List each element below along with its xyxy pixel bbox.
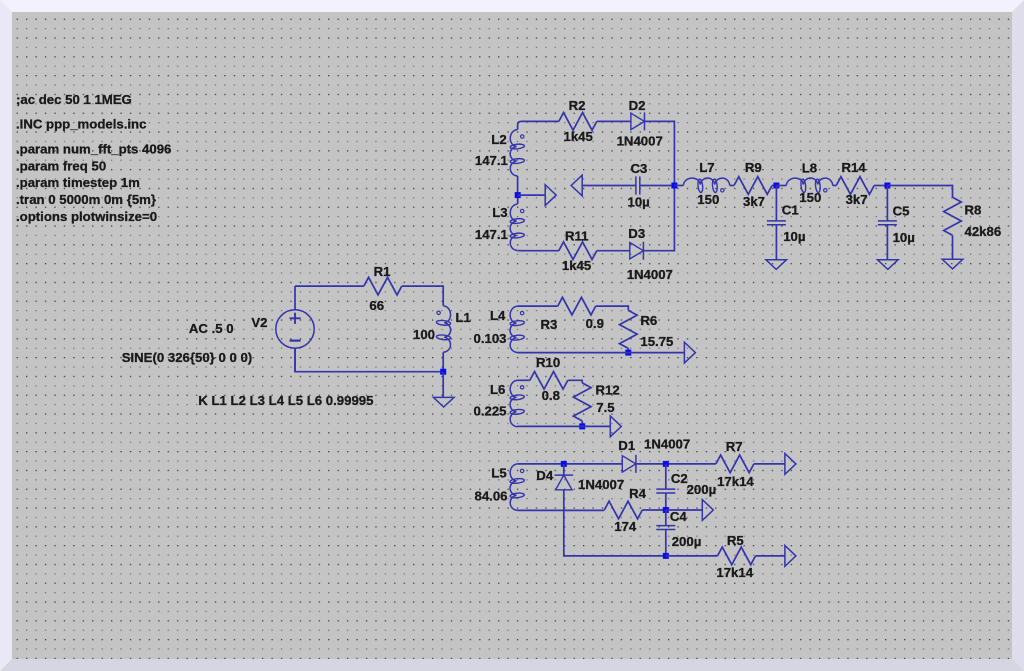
wire R11 to L3: [522, 250, 559, 252]
label 42k86: [965, 224, 1002, 239]
capacitor C2: [656, 489, 675, 493]
spice directive .tran 0 5000m 0m {5m}: [16, 192, 156, 207]
wire C2 top: [665, 464, 667, 489]
label R9: [745, 160, 762, 175]
label 150 L7: [697, 192, 719, 207]
label L2: [491, 132, 506, 147]
ground G3: [878, 260, 899, 270]
label D1: [618, 438, 635, 453]
wire D1 to R7: [636, 463, 716, 465]
svg-text:L1: L1: [456, 310, 471, 325]
svg-text:150: 150: [799, 190, 821, 205]
label 7.5: [596, 400, 614, 415]
diode D2: [631, 112, 645, 130]
node junction R12 out: [579, 423, 585, 429]
svg-text:R11: R11: [565, 229, 588, 244]
svg-text:66: 66: [369, 298, 384, 313]
label R8: [965, 202, 982, 217]
resistor R4: [604, 501, 642, 519]
label 1k45 R11: [562, 258, 591, 273]
label 17k14 R5: [716, 565, 753, 580]
wire D3 to R11: [597, 250, 630, 252]
svg-text:R5: R5: [727, 533, 744, 548]
svg-text:1N4007: 1N4007: [644, 437, 690, 452]
node junction C4 top: [663, 507, 669, 513]
label 10u C5: [893, 230, 915, 245]
svg-text:C2: C2: [671, 471, 688, 486]
ground G1: [433, 397, 454, 407]
wire L1 bottom: [442, 352, 444, 371]
svg-text:1N4007: 1N4007: [617, 134, 663, 149]
label R14: [842, 160, 867, 175]
svg-text:R1: R1: [374, 264, 391, 279]
label 1N4007 D2: [617, 134, 663, 149]
label R1: [374, 264, 391, 279]
svg-text:C3: C3: [631, 161, 648, 176]
label 147.1 L3: [475, 227, 508, 242]
svg-text:K L1 L2 L3 L4 L5 L6 0.99995: K L1 L2 L3 L4 L5 L6 0.99995: [198, 393, 373, 408]
svg-text:0.9: 0.9: [586, 316, 604, 331]
svg-text:V2: V2: [251, 315, 267, 330]
svg-text:R2: R2: [569, 98, 586, 113]
port arrow R6 out: [684, 342, 695, 363]
label 1N4007 D1: [644, 437, 690, 452]
wire node to R8: [887, 186, 952, 198]
node junction R6 out: [625, 350, 631, 356]
label D3: [628, 226, 645, 241]
svg-text:;ac dec 50 1 1MEG: ;ac dec 50 1 1MEG: [16, 92, 132, 107]
window frame top bevel: [0, 0, 1024, 12]
wire L5 mid rail: [518, 509, 605, 511]
wire R12 bottom: [581, 421, 583, 427]
svg-text:200µ: 200µ: [687, 482, 717, 497]
label L1: [456, 310, 471, 325]
svg-text:L6: L6: [490, 382, 505, 397]
diode D4: [555, 475, 574, 490]
wire L2 to R2: [522, 120, 559, 122]
svg-text:R3: R3: [541, 317, 558, 332]
svg-text:L4: L4: [490, 308, 506, 323]
wire L6 bottom rail: [518, 425, 611, 427]
svg-text:1N4007: 1N4007: [578, 477, 624, 492]
wire C5 bottom: [886, 225, 888, 260]
svg-text:10µ: 10µ: [783, 229, 805, 244]
svg-text:R8: R8: [965, 202, 982, 217]
node junction L2-L3: [515, 192, 521, 198]
wire R5 to port: [756, 555, 785, 557]
wire L8 to R14: [833, 185, 836, 187]
node junction D2-D3: [671, 183, 677, 189]
svg-text:1k45: 1k45: [562, 258, 591, 273]
wire C2 bottom: [665, 493, 667, 510]
inductor L3: [510, 195, 525, 251]
svg-text:0.103: 0.103: [474, 331, 507, 346]
window frame left bevel: [0, 0, 12, 671]
port arrow R5 out: [785, 546, 796, 567]
label 15.75: [640, 334, 673, 349]
svg-text:84.06: 84.06: [475, 489, 508, 504]
svg-text:R7: R7: [726, 439, 743, 454]
label 200u C4: [672, 534, 702, 549]
svg-text:15.75: 15.75: [640, 334, 673, 349]
inductor L4: [510, 306, 525, 353]
spice directive .param num_fft_pts 4096: [16, 142, 171, 157]
svg-text:R12: R12: [596, 383, 620, 398]
capacitor C5: [878, 221, 897, 225]
wire node to L8: [776, 185, 786, 187]
svg-text:0.8: 0.8: [542, 388, 560, 403]
svg-text:D3: D3: [628, 226, 645, 241]
svg-text:C4: C4: [670, 509, 688, 524]
inductor L6: [510, 380, 525, 427]
svg-text:150: 150: [697, 192, 719, 207]
label R11: [565, 229, 588, 244]
port arrow R7 out: [785, 454, 796, 475]
wire R7 to port: [754, 463, 785, 465]
wire C1 bottom: [775, 225, 777, 260]
label C4: [670, 509, 688, 524]
wire L4 bottom rail: [518, 352, 685, 354]
svg-text:147.1: 147.1: [475, 153, 508, 168]
spice directive .INC ppp_models.inc: [16, 117, 146, 132]
label L3: [492, 205, 507, 220]
capacitor C1: [767, 221, 786, 225]
inductor L7: [683, 178, 730, 193]
wire L5 top rail: [518, 463, 623, 465]
label AC .5 0: [189, 321, 234, 336]
label 1N4007 D4: [578, 477, 624, 492]
label 200u C2: [687, 482, 717, 497]
label L4: [490, 308, 506, 323]
label SINE(0 326{50} 0 0 0): [122, 350, 253, 365]
label C2: [671, 471, 688, 486]
diode D3: [630, 242, 644, 260]
wire R14 to node C5: [874, 185, 887, 187]
label 10u C1: [783, 229, 805, 244]
svg-text:1k45: 1k45: [564, 129, 593, 144]
svg-text:R14: R14: [842, 160, 867, 175]
svg-text:17k14: 17k14: [717, 474, 754, 489]
wire R2 to D2: [597, 120, 631, 122]
node junction C1: [773, 183, 779, 189]
wire D2 right loop: [643, 121, 674, 250]
wire R1 to L1: [402, 286, 443, 306]
port arrow C3 left: [571, 175, 582, 196]
label D4: [536, 468, 554, 483]
wire L6 to R10: [518, 379, 530, 381]
label R12: [596, 383, 620, 398]
label 66: [369, 298, 384, 313]
inductor L2: [510, 121, 525, 195]
svg-text:R10: R10: [536, 355, 560, 370]
label 0.225: [474, 404, 507, 419]
label L6: [490, 382, 505, 397]
svg-text:42k86: 42k86: [965, 224, 1002, 239]
label L7: [699, 160, 714, 175]
window frame right bevel: [1012, 0, 1024, 671]
node junction C5: [884, 183, 890, 189]
inductor L1: [436, 306, 451, 353]
svg-text:1N4007: 1N4007: [627, 267, 673, 282]
node junction C2 top: [663, 461, 669, 467]
node junction D4 top: [561, 461, 567, 467]
wire node to L7: [674, 185, 683, 187]
label 3k7 R14: [846, 192, 868, 207]
svg-text:.param timestep 1m: .param timestep 1m: [16, 175, 140, 190]
label R4: [629, 486, 647, 501]
spice directive .param freq 50: [16, 159, 106, 174]
label 147.1 L2: [475, 153, 508, 168]
svg-text:174: 174: [614, 519, 637, 534]
node junction bottom rail: [663, 553, 669, 559]
resistor R5: [718, 547, 756, 565]
wire R10 to R12: [568, 380, 582, 383]
spice directive K L1 L2 L3 L4 L5 L6 0.99995: [198, 393, 373, 408]
svg-text:R9: R9: [745, 160, 762, 175]
resistor R3: [558, 297, 596, 315]
inductor L5: [510, 464, 525, 511]
wire R8 bottom: [952, 235, 954, 259]
svg-text:7.5: 7.5: [596, 400, 614, 415]
window frame bottom bevel: [0, 659, 1024, 671]
label R10: [536, 355, 560, 370]
wire C1 top: [775, 186, 777, 221]
resistor R2: [559, 113, 597, 131]
wire L7 to R9: [730, 185, 734, 187]
port arrow secondary1: [545, 185, 556, 206]
wire V2 top rail: [295, 285, 364, 287]
wire R6 bottom: [627, 348, 629, 352]
wire ground stem V2: [442, 372, 444, 398]
label R5: [727, 533, 744, 548]
svg-text:C1: C1: [782, 203, 799, 218]
svg-text:L8: L8: [802, 160, 817, 175]
svg-text:.param freq 50: .param freq 50: [16, 159, 106, 174]
spice directive ;ac dec 50 1 1MEG: [16, 92, 132, 107]
ground G4: [942, 259, 963, 269]
wire D4 top: [563, 464, 565, 475]
svg-text:R4: R4: [629, 486, 647, 501]
svg-text:.param num_fft_pts 4096: .param num_fft_pts 4096: [16, 142, 171, 157]
node junction V2 bottom: [440, 369, 446, 375]
label C1: [782, 203, 799, 218]
capacitor C3: [636, 176, 640, 194]
svg-text:C5: C5: [893, 203, 910, 218]
wire C5 top: [886, 186, 888, 221]
wire C3 to node: [640, 185, 675, 187]
svg-text:L7: L7: [699, 160, 714, 175]
label R2: [569, 98, 586, 113]
svg-text:17k14: 17k14: [716, 565, 753, 580]
wire R9 to node C1: [772, 185, 776, 187]
spice directive .options plotwinsize=0: [16, 209, 157, 224]
wire V2 bottom rail: [295, 348, 443, 372]
port arrow R12 out: [610, 416, 621, 437]
svg-text:10µ: 10µ: [628, 195, 650, 210]
voltage source V2: [276, 286, 314, 372]
label 1k45 R2: [564, 129, 593, 144]
svg-text:L3: L3: [492, 205, 507, 220]
label 3k7 R9: [743, 194, 765, 209]
resistor R1: [364, 277, 402, 295]
resistor R10: [530, 372, 568, 390]
wire L4 to R3: [518, 305, 558, 307]
label 0.9: [586, 316, 604, 331]
svg-text:L2: L2: [491, 132, 506, 147]
label 0.103: [474, 331, 507, 346]
label D2: [629, 98, 646, 113]
inductor L8: [786, 178, 833, 193]
resistor R6: [620, 310, 638, 348]
wire port to C3: [582, 185, 636, 187]
label C5: [893, 203, 910, 218]
wire R3 to R6: [596, 306, 629, 310]
ground G2: [766, 260, 787, 270]
svg-text:D2: D2: [629, 98, 646, 113]
diode D1: [622, 455, 636, 473]
svg-text:100: 100: [413, 327, 435, 342]
label 150 L8: [799, 190, 821, 205]
svg-text:SINE(0 326{50} 0 0 0): SINE(0 326{50} 0 0 0): [122, 350, 253, 365]
resistor R8: [944, 197, 962, 235]
wire node to port R4: [666, 509, 702, 511]
label C3: [631, 161, 648, 176]
resistor R11: [559, 242, 597, 260]
svg-text:147.1: 147.1: [475, 227, 508, 242]
port arrow R4 out: [702, 500, 713, 521]
label V2: [251, 315, 267, 330]
spice directive .param timestep 1m: [16, 175, 140, 190]
svg-text:L5: L5: [491, 466, 506, 481]
svg-text:R6: R6: [640, 313, 657, 328]
label 174: [614, 519, 637, 534]
resistor R14: [836, 177, 874, 195]
wire C4 bottom: [665, 530, 667, 556]
label 1N4007 D3: [627, 267, 673, 282]
svg-text:200µ: 200µ: [672, 534, 702, 549]
svg-text:.INC ppp_models.inc: .INC ppp_models.inc: [16, 117, 146, 132]
svg-text:.options plotwinsize=0: .options plotwinsize=0: [16, 209, 157, 224]
svg-text:D1: D1: [618, 438, 635, 453]
svg-text:0.225: 0.225: [474, 404, 507, 419]
svg-text:AC .5 0: AC .5 0: [189, 321, 234, 336]
svg-text:10µ: 10µ: [893, 230, 915, 245]
resistor R7: [716, 455, 754, 473]
wire C4 top: [665, 510, 667, 526]
label R3: [541, 317, 558, 332]
wire R4 to node: [642, 509, 666, 511]
label 10u C3: [628, 195, 650, 210]
capacitor C4: [656, 526, 675, 530]
label L8: [802, 160, 817, 175]
wire D4 bottom: [564, 490, 666, 556]
label R7: [726, 439, 743, 454]
label 100: [413, 327, 435, 342]
label 0.8 R10: [542, 388, 560, 403]
label 17k14 R7: [717, 474, 754, 489]
wire junction to port: [518, 194, 546, 196]
svg-text:D4: D4: [536, 468, 554, 483]
wire bottom rail to R5: [666, 555, 717, 557]
resistor R9: [734, 177, 772, 195]
svg-text:3k7: 3k7: [743, 194, 765, 209]
resistor R12: [573, 383, 591, 421]
svg-text:.tran 0 5000m 0m {5m}: .tran 0 5000m 0m {5m}: [16, 192, 156, 207]
svg-text:3k7: 3k7: [846, 192, 868, 207]
label 84.06: [475, 489, 508, 504]
label R6: [640, 313, 657, 328]
label L5: [491, 466, 506, 481]
